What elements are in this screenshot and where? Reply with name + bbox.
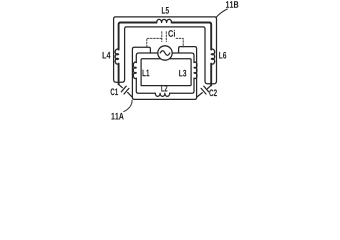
label L2 [161, 85, 167, 92]
label C2 [209, 89, 217, 96]
label L6 [219, 52, 226, 59]
capacitor C1 plates [121, 86, 129, 94]
label C1 [111, 88, 119, 95]
dashed stub left of Ci label [161, 32, 163, 42]
dashed box Ci (internal capacitance of source) [147, 32, 183, 47]
feed wire from source left terminal [136, 53, 158, 63]
wire L2 to L3 [170, 78, 194, 93]
label 11A [111, 113, 123, 120]
RF source (circle with sine wave) [158, 46, 172, 60]
dashed stub right of Ci label [165, 32, 167, 42]
feed coil 11A outer turn: jogs, sides and bottom link [132, 47, 196, 100]
wire L1 to L2 [136, 78, 155, 93]
capacitor C2 plates [201, 86, 209, 94]
label L5 [162, 7, 169, 14]
feed coil body (rectangle containing L1 L3 labels) [141, 59, 191, 86]
leader line to 11A [124, 100, 132, 111]
label L1 [143, 70, 150, 77]
inductor L5 (top side of turn 2) [157, 19, 172, 22]
booster 11B turn 1 + turn 3 (outer and inner rectangles joined by bottom u-turns) [114, 17, 217, 84]
inductor L4 (left side of turn 2) [115, 49, 118, 64]
leader line to 11B [216, 9, 227, 17]
label L4 [103, 52, 111, 59]
label L3 [179, 70, 186, 77]
capacitor C1 lead from turn 2 left end [119, 84, 123, 87]
inductor L1 (left branch of feed coil) [133, 62, 136, 78]
label 11B [226, 1, 238, 8]
booster 11B turn 2 (thick rectangle carrying L4 L5 L6) [118, 64, 120, 85]
wire L3 to source right terminal [172, 53, 194, 63]
inductor L2 (bottom branch of feed coil) [155, 93, 169, 96]
inductor L6 (right side of turn 2) [211, 49, 214, 64]
inductor L3 (right branch of feed coil) [194, 62, 197, 78]
capacitor C1 lead to bottom link [128, 93, 133, 98]
label Ci [168, 30, 175, 37]
capacitor C2 lead from turn 2 right end [208, 85, 212, 88]
capacitor C2 lead to bottom link [197, 93, 203, 98]
